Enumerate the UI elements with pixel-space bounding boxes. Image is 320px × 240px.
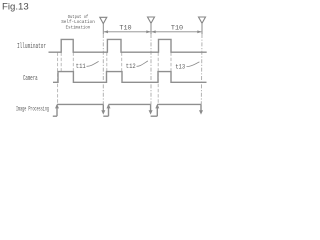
output marker triangle 1 <box>100 17 107 23</box>
up arrowhead rise 1 <box>55 104 59 108</box>
alignment dash x=73.3 (fall edges cycle 1) <box>72 53 74 72</box>
row label Illuminator <box>17 42 46 50</box>
row label Image Processing <box>16 105 49 113</box>
alignment dash x=61.2 (illuminator rise 1) <box>60 53 62 72</box>
dash-dot timing line at x=202 <box>200 34 203 104</box>
rise edge pulse 3 <box>156 105 158 116</box>
up arrowhead rise 2 <box>107 104 111 108</box>
alignment dash x=121.7 (fall edges cycle 2) <box>121 53 123 72</box>
stub under triangle 3 <box>201 23 203 34</box>
top pulse 1 <box>57 103 103 105</box>
svg-text:Illuminator: Illuminator <box>17 42 46 50</box>
annotation: Output of Self-Location Estimation <box>61 14 95 30</box>
alignment dash x=171 (fall edges cycle 3) <box>170 53 172 72</box>
fall edge (output) arrow 3 <box>200 104 202 111</box>
period label T10 (second) <box>171 25 183 33</box>
alignment dash x=158.2 (rise edges cycle 3) <box>157 53 159 105</box>
exposure label t11 with leader <box>76 61 99 70</box>
svg-text:t11: t11 <box>76 63 86 71</box>
svg-text:t13: t13 <box>175 63 185 71</box>
svg-text:t12: t12 <box>126 63 136 71</box>
output marker triangle 3 <box>199 17 206 23</box>
stub under triangle 2 <box>150 23 152 34</box>
down arrowhead output 3 <box>199 110 203 114</box>
exposure label t12 with leader <box>126 61 148 70</box>
top pulse 3 <box>157 103 201 105</box>
dash-dot timing line at x=151 <box>150 34 152 104</box>
alignment dash x=57.8 (camera/processing rise 1) <box>57 53 59 105</box>
rise edge pulse 2 <box>108 105 110 116</box>
top pulse 2 <box>109 103 151 105</box>
svg-text:T10: T10 <box>171 25 183 33</box>
svg-text:Camera: Camera <box>23 74 38 83</box>
svg-text:Image Processing: Image Processing <box>16 105 49 113</box>
stub under triangle 1 <box>102 24 104 34</box>
exposure label t13 with leader <box>175 62 199 71</box>
down arrowhead output 1 <box>101 110 105 114</box>
dash-dot timing line at x=103.3 <box>102 34 104 104</box>
svg-text:Estimation: Estimation <box>66 24 91 30</box>
dimension arrow T10 first span <box>104 30 151 33</box>
svg-text:T10: T10 <box>119 25 131 33</box>
svg-text:Fig.13: Fig.13 <box>2 1 29 12</box>
baseline between pulse 2 and 3 <box>151 115 158 117</box>
period label T10 (first) <box>119 25 131 33</box>
illuminator waveform <box>49 39 207 52</box>
dimension arrow T10 second span <box>151 30 201 33</box>
down arrowhead output 2 <box>149 110 153 114</box>
camera waveform <box>53 72 207 83</box>
rise edge pulse 1 <box>56 105 58 116</box>
output marker triangle 2 <box>148 17 155 23</box>
fall edge (output) arrow 1 <box>102 104 104 111</box>
image processing waveform segments <box>53 104 201 116</box>
fall edge (output) arrow 2 <box>150 104 152 111</box>
baseline between pulse 1 and 2 <box>103 115 108 117</box>
baseline stub before pulse 1 <box>53 115 57 117</box>
alignment dash x=107 (rise edges cycle 2) <box>106 53 108 72</box>
up arrowhead rise 3 <box>155 104 159 108</box>
row label Camera <box>23 74 38 83</box>
